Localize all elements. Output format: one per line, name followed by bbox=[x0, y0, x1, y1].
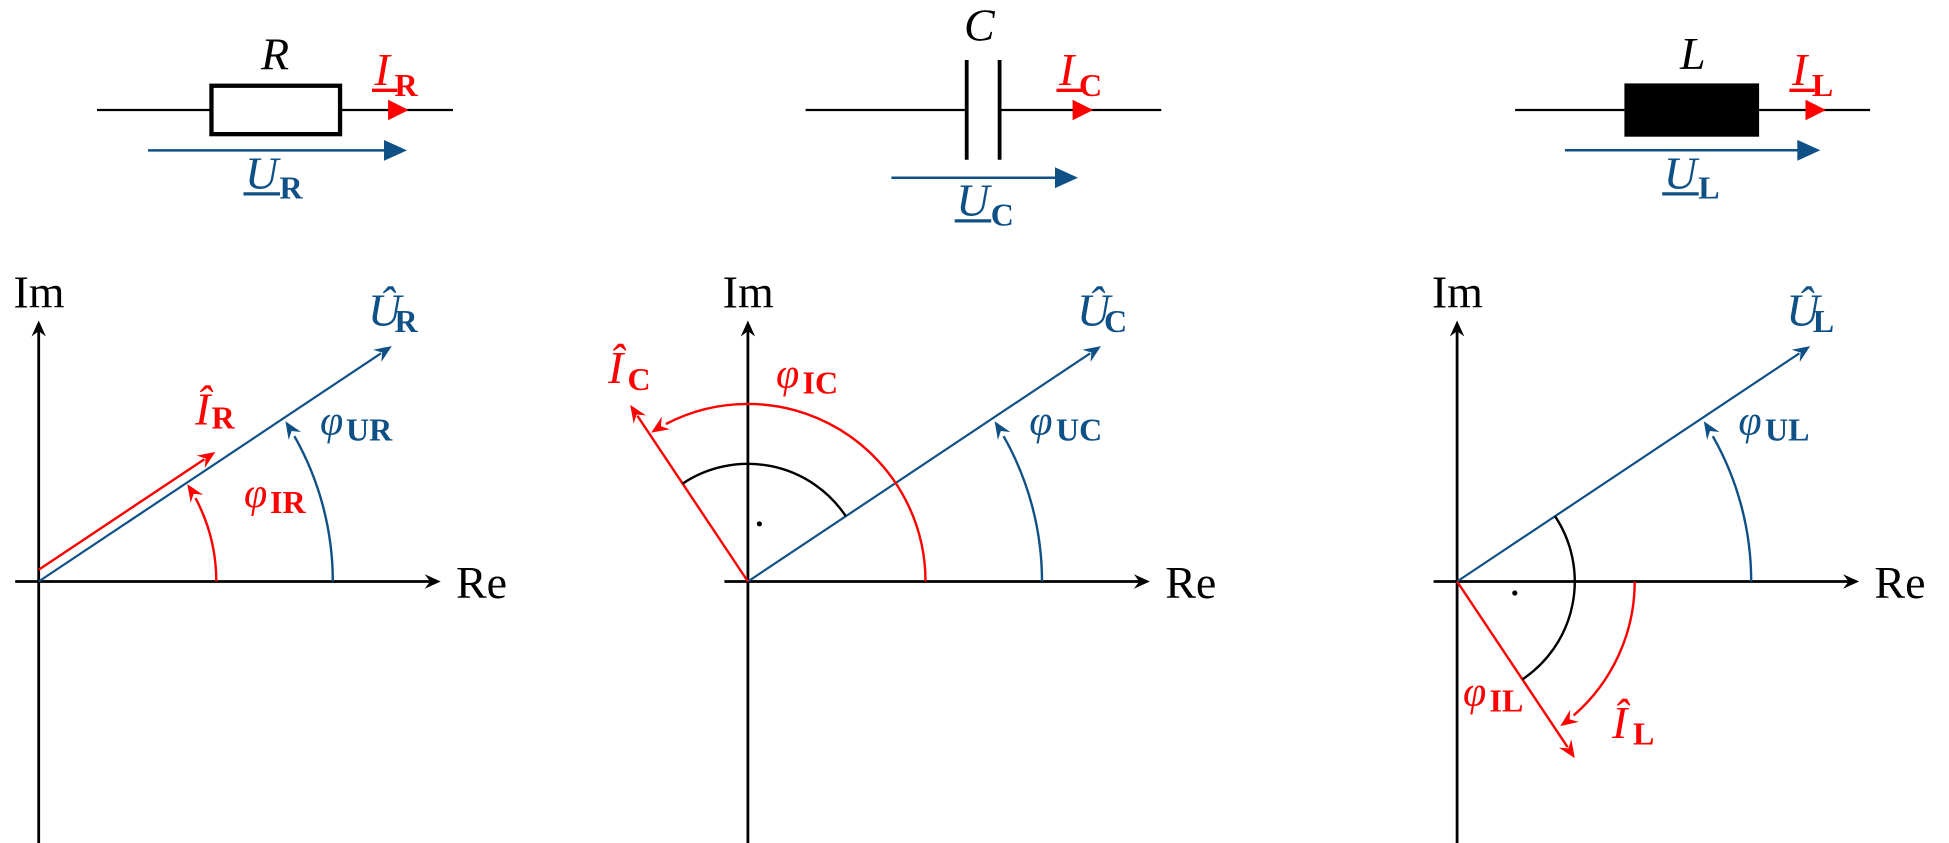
svg-text:φ: φ bbox=[1463, 670, 1486, 716]
Re axis (L) bbox=[1434, 580, 1852, 583]
phasor U_R bbox=[39, 353, 381, 581]
svg-text:φ: φ bbox=[320, 399, 343, 445]
phasor U_C bbox=[748, 353, 1090, 581]
svg-text:R: R bbox=[280, 170, 304, 206]
phasor I_R bbox=[39, 459, 205, 570]
phasor I_C bbox=[637, 416, 748, 582]
svg-text:φ: φ bbox=[776, 352, 799, 398]
svg-text:I: I bbox=[374, 44, 393, 95]
svg-text:UL: UL bbox=[1765, 412, 1809, 448]
svg-text:C: C bbox=[628, 361, 651, 397]
inductor L bbox=[1624, 83, 1759, 136]
current arrow I_R bbox=[388, 100, 409, 120]
Re axis (C) bbox=[724, 580, 1142, 583]
svg-text:C: C bbox=[964, 0, 996, 51]
wire bbox=[1759, 109, 1870, 111]
svg-text:IC: IC bbox=[803, 365, 839, 401]
svg-text:L: L bbox=[1679, 28, 1706, 79]
wire bbox=[1002, 109, 1162, 111]
phasor I_L bbox=[1457, 582, 1568, 748]
svg-text:Re: Re bbox=[1165, 557, 1216, 608]
svg-text:Re: Re bbox=[1874, 557, 1925, 608]
svg-text:φ: φ bbox=[244, 471, 267, 517]
voltage arrow U_C bbox=[891, 176, 1057, 179]
svg-text:C: C bbox=[1104, 303, 1127, 339]
svg-text:L: L bbox=[1633, 716, 1654, 752]
capacitor C plates bbox=[965, 60, 969, 160]
svg-text:Î: Î bbox=[1611, 697, 1631, 748]
angle arc phi_IC bbox=[666, 404, 926, 582]
svg-text:U: U bbox=[956, 175, 992, 226]
svg-text:UC: UC bbox=[1056, 412, 1102, 448]
voltage arrow U_L bbox=[1565, 149, 1799, 152]
Im axis (L) bbox=[1456, 330, 1459, 843]
svg-text:L: L bbox=[1813, 303, 1834, 339]
svg-text:Î: Î bbox=[607, 342, 627, 393]
svg-text:R: R bbox=[212, 400, 236, 436]
angle arc phi_IR bbox=[196, 498, 217, 581]
svg-text:L: L bbox=[1698, 170, 1719, 206]
voltage arrow U_R bbox=[148, 149, 386, 152]
current arrow I_L bbox=[1806, 100, 1827, 120]
svg-text:Im: Im bbox=[1432, 267, 1483, 318]
Re axis (R) bbox=[15, 580, 433, 583]
right angle dot (C) bbox=[757, 521, 762, 526]
svg-text:φ: φ bbox=[1738, 399, 1761, 445]
angle arc phi_IL bbox=[1574, 582, 1635, 716]
angle arc phi_UR bbox=[294, 436, 332, 581]
svg-text:Im: Im bbox=[723, 267, 774, 318]
svg-text:IL: IL bbox=[1490, 683, 1524, 719]
svg-text:L: L bbox=[1812, 67, 1833, 103]
svg-text:R: R bbox=[395, 67, 419, 103]
svg-text:φ: φ bbox=[1029, 399, 1052, 445]
wire bbox=[806, 109, 965, 111]
svg-text:I: I bbox=[1791, 44, 1810, 95]
svg-text:IR: IR bbox=[270, 484, 306, 520]
right angle arc (C) bbox=[683, 464, 846, 516]
svg-text:C: C bbox=[1079, 67, 1102, 103]
phasor U_L bbox=[1457, 353, 1799, 581]
angle arc phi_UL bbox=[1713, 436, 1751, 581]
svg-text:R: R bbox=[260, 29, 289, 80]
Im axis (C) bbox=[747, 330, 750, 843]
wire bbox=[97, 109, 453, 111]
svg-text:Im: Im bbox=[13, 267, 64, 318]
svg-text:UR: UR bbox=[346, 412, 393, 448]
resistor R bbox=[211, 86, 340, 134]
svg-text:I: I bbox=[1058, 44, 1077, 95]
svg-text:U: U bbox=[245, 148, 281, 199]
svg-text:U: U bbox=[1664, 148, 1700, 199]
Im axis (R) bbox=[37, 330, 40, 843]
right angle arc (L) bbox=[1522, 516, 1574, 679]
svg-text:R: R bbox=[395, 303, 419, 339]
right angle dot (L) bbox=[1512, 590, 1517, 595]
svg-text:C: C bbox=[991, 197, 1014, 233]
wire bbox=[1515, 109, 1624, 111]
svg-text:Re: Re bbox=[456, 557, 507, 608]
angle arc phi_UC bbox=[1004, 436, 1042, 581]
current arrow I_C bbox=[1073, 100, 1094, 120]
